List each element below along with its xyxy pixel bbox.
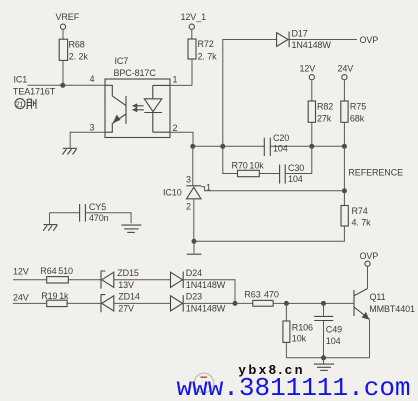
ground (under IC10 anode)	[193, 241, 195, 253]
svg-text:IC7: IC7	[115, 56, 129, 66]
svg-text:ZD14: ZD14	[118, 292, 140, 302]
svg-text:24V: 24V	[338, 64, 354, 74]
svg-text:CY5: CY5	[89, 202, 106, 212]
svg-text:IC10: IC10	[163, 188, 182, 198]
ground (under C49, earth)	[323, 358, 325, 364]
junction ref	[342, 188, 347, 193]
svg-text:R74: R74	[352, 206, 368, 216]
wire R75 to node B	[343, 122, 345, 146]
capacitor C49	[314, 303, 342, 357]
wire D17 to OVP	[289, 39, 357, 41]
svg-text:R72: R72	[198, 39, 214, 49]
resistor R68	[59, 39, 88, 61]
wire anode node to R74 bottom	[194, 226, 344, 241]
node IC1 pin wire	[28, 84, 106, 86]
capacitor C20	[264, 133, 289, 156]
svg-text:1N4148W: 1N4148W	[186, 280, 226, 290]
svg-text:R75: R75	[350, 102, 366, 112]
svg-text:1N4148W: 1N4148W	[186, 304, 226, 314]
junction node IC1/R68	[60, 83, 65, 88]
resistor R19	[41, 291, 69, 307]
terminal 12V (mid)	[300, 64, 316, 80]
svg-text:1N4148W: 1N4148W	[292, 40, 332, 50]
junction node C	[233, 301, 238, 306]
wire R68 to node IC1	[62, 60, 64, 85]
svg-text:104: 104	[326, 336, 341, 346]
wire ZD15 to D24	[114, 279, 171, 281]
wire R63 to Q11 base	[273, 302, 354, 304]
light arrows	[134, 106, 144, 110]
stamp circle watermark	[194, 373, 214, 393]
wire IC10 ref pin to REFERENCE node	[201, 187, 344, 191]
wire D24 to node C	[183, 280, 235, 304]
svg-text:12V: 12V	[13, 266, 29, 276]
resistor R74	[341, 206, 371, 228]
svg-text:3: 3	[186, 175, 191, 185]
resistor R63	[244, 290, 278, 307]
svg-text:MMBT4401: MMBT4401	[369, 304, 415, 314]
transistor Q11 MMBT4401	[354, 267, 415, 358]
svg-text:13V: 13V	[118, 280, 134, 290]
resistor R75	[341, 101, 366, 124]
svg-text:BPC-817C: BPC-817C	[114, 68, 157, 78]
diode D23 1N4148W	[171, 292, 226, 314]
wire VREF to R68	[62, 30, 64, 39]
svg-text:24V: 24V	[13, 293, 29, 303]
lower RC branch R70 C30	[223, 146, 238, 173]
terminal VREF	[56, 12, 80, 29]
ground (right of CY5, earth)	[121, 225, 141, 232]
resistor R70	[232, 161, 265, 177]
svg-text:21: 21	[16, 101, 24, 108]
svg-text:104: 104	[288, 174, 303, 184]
wire node C to R63	[235, 302, 253, 304]
svg-text:27V: 27V	[118, 304, 134, 314]
svg-text:D17: D17	[292, 29, 308, 39]
svg-text:104: 104	[273, 143, 288, 153]
svg-text:C30: C30	[288, 163, 304, 173]
svg-text:C20: C20	[273, 133, 289, 143]
wire 24V to R19	[13, 302, 47, 304]
diode D17 1N4148W	[277, 29, 332, 51]
zener ZD14	[101, 292, 140, 314]
wire ZD14 to D23	[114, 302, 171, 304]
svg-text:R19 1k: R19 1k	[41, 291, 69, 301]
svg-text:Q11: Q11	[370, 292, 386, 302]
svg-text:27k: 27k	[317, 114, 332, 124]
junction C49 top	[321, 301, 326, 306]
svg-text:12V: 12V	[300, 64, 316, 74]
terminal 12V_1	[181, 12, 207, 29]
diode D24 1N4148W	[171, 268, 226, 290]
svg-text:68k: 68k	[350, 114, 365, 124]
wire R19 to ZD14	[67, 302, 101, 304]
resistor R64	[40, 266, 73, 283]
wire R70 to C30	[259, 173, 279, 175]
bottom wire	[286, 357, 369, 359]
svg-text:R64 510: R64 510	[40, 266, 73, 276]
svg-text:10k: 10k	[292, 334, 307, 344]
junction node B (R75)	[342, 144, 347, 149]
svg-text:4: 4	[90, 74, 95, 84]
svg-text:2. 2k: 2. 2k	[69, 52, 89, 62]
terminal 24V (mid)	[338, 64, 354, 80]
svg-text:R68: R68	[69, 40, 85, 50]
junction R106 top	[284, 301, 289, 306]
wire R82 to node B	[311, 122, 313, 146]
capacitor C30	[280, 163, 305, 184]
junction node B (R82)	[309, 144, 314, 149]
wire R64 to ZD15	[68, 279, 101, 281]
svg-text:OVP: OVP	[360, 251, 379, 261]
optocoupler IC7 BPC-817C	[105, 56, 170, 138]
svg-text:OVP: OVP	[360, 35, 379, 45]
junction node A (D17 riser)	[220, 144, 225, 149]
wire to R82	[311, 80, 313, 101]
terminal OVP (bottom)	[360, 251, 379, 267]
wire to R72	[191, 30, 193, 39]
junction C49 bottom	[321, 355, 326, 360]
svg-text:D23: D23	[186, 292, 202, 302]
junction anode	[192, 239, 197, 244]
wire C30 to node B	[285, 146, 312, 173]
wire R72 to pin1	[191, 59, 193, 85]
wire node A up to D17	[223, 40, 277, 147]
svg-text:2: 2	[173, 123, 178, 133]
svg-text:D24: D24	[186, 268, 202, 278]
wire to R75	[343, 80, 345, 101]
resistor R72	[188, 39, 217, 62]
svg-text:R106: R106	[292, 323, 313, 333]
node A-B main wire with C20	[193, 145, 345, 147]
svg-text:470n: 470n	[89, 213, 109, 223]
wire IC10 anode down	[193, 199, 195, 242]
wire D23 to node C	[183, 302, 235, 304]
svg-text:3: 3	[90, 123, 95, 133]
svg-text:www.3811111.com: www.3811111.com	[177, 373, 411, 401]
ground (under pin 3)	[63, 148, 78, 154]
resistor R82	[308, 101, 333, 124]
svg-text:R63 470: R63 470	[244, 290, 278, 300]
svg-text:4. 7k: 4. 7k	[352, 218, 372, 228]
resistor R106	[283, 303, 313, 357]
zener ZD15	[101, 268, 139, 290]
svg-text:1: 1	[173, 75, 178, 85]
svg-text:C49: C49	[326, 325, 342, 335]
svg-text:2: 2	[186, 202, 191, 212]
svg-text:ZD15: ZD15	[117, 268, 139, 278]
wire 12V to R64	[13, 279, 47, 281]
svg-text:2. 7k: 2. 7k	[198, 52, 218, 62]
svg-text:IC1: IC1	[14, 75, 28, 85]
svg-text:VREF: VREF	[56, 12, 80, 22]
svg-text:R70 10k: R70 10k	[232, 161, 265, 171]
emitter arrow Q11	[362, 312, 370, 320]
junction node A (opto pin2 / IC10)	[190, 144, 195, 149]
phototransistor inside IC7 (pins 4,3)	[105, 85, 126, 132]
LED diode inside IC7	[144, 85, 170, 132]
svg-text:TEA1716T: TEA1716T	[13, 87, 56, 97]
shunt regulator IC10	[192, 146, 194, 185]
ground (left of CY5)	[49, 213, 51, 224]
svg-text:12V_1: 12V_1	[181, 12, 207, 22]
net REFERENCE vertical	[343, 146, 345, 205]
wire pin3 to ground	[70, 132, 105, 148]
capacitor CY5	[50, 202, 132, 223]
svg-text:R82: R82	[317, 102, 333, 112]
svg-text:REFERENCE: REFERENCE	[348, 168, 403, 178]
label IC1 TEA1716T pin21	[13, 75, 56, 109]
